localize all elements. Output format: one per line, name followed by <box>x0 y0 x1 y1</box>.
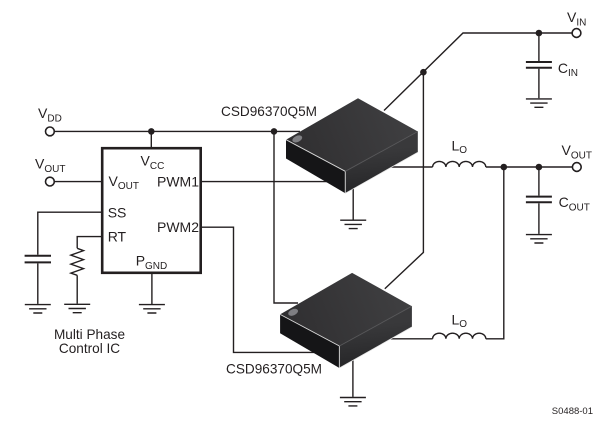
svg-text:CSD96370Q5M: CSD96370Q5M <box>221 104 317 119</box>
wire SS cap to ground <box>37 263 39 304</box>
wire chip2 switch node <box>388 338 433 340</box>
wire VOUT rail <box>486 166 573 168</box>
wire VDD drop to chip2 <box>274 131 298 303</box>
terminal VOUT left <box>46 177 55 186</box>
ground RT <box>64 304 90 312</box>
wire VDD rail <box>54 130 300 132</box>
wire chip2 ground stem <box>352 358 354 397</box>
power stage U1 CSD96370Q5M package <box>286 98 418 193</box>
wire COUT stem <box>538 167 540 196</box>
capacitor SS <box>25 256 51 263</box>
op controller box Multi Phase Control IC <box>102 148 201 273</box>
svg-text:VOUT: VOUT <box>562 142 592 161</box>
node junction VDD-VCC <box>148 128 155 135</box>
terminal VDD <box>46 127 55 136</box>
wire SS <box>38 212 102 255</box>
resistor RT <box>71 248 84 275</box>
inductor LO phase2 <box>433 333 486 339</box>
capacitor COUT <box>526 197 552 203</box>
wire PGND stem <box>151 274 153 304</box>
wire chip1 ground stem <box>352 186 354 220</box>
ground chip1 <box>340 220 366 228</box>
svg-text:LO: LO <box>452 138 468 157</box>
svg-text:S0488-01: S0488-01 <box>552 406 593 417</box>
ground SS <box>25 305 51 313</box>
svg-text:Multi Phase: Multi Phase <box>54 327 125 342</box>
node junction VIN-CIN <box>536 30 543 37</box>
power stage U2 CSD96370Q5M package <box>280 273 412 368</box>
ground chip2 <box>340 398 366 406</box>
terminal VIN <box>572 29 581 38</box>
svg-text:LO: LO <box>452 311 468 330</box>
svg-text:CSD96370Q5M: CSD96370Q5M <box>226 361 322 376</box>
svg-text:PWM1: PWM1 <box>157 173 199 189</box>
wire CIN stem <box>538 33 540 61</box>
svg-text:Control IC: Control IC <box>59 341 120 356</box>
svg-text:PWM2: PWM2 <box>157 219 199 235</box>
svg-text:VDD: VDD <box>38 105 62 124</box>
node junction VOUT-COUT <box>536 164 543 171</box>
capacitor CIN <box>526 62 552 68</box>
terminal VOUT right <box>572 163 581 172</box>
inductor LO phase1 <box>433 161 486 167</box>
wire chip1 switch node <box>388 166 433 168</box>
svg-text:VOUT: VOUT <box>35 155 65 174</box>
wire PWM1 <box>202 181 332 183</box>
node junction VOUT-phase2 <box>501 164 508 171</box>
ground CIN <box>526 99 552 107</box>
ground PGND <box>139 305 165 313</box>
svg-text:VIN: VIN <box>567 9 586 28</box>
wire VIN drop to chip2 <box>385 72 424 289</box>
wire VIN rail <box>384 33 572 111</box>
svg-text:SS: SS <box>108 204 127 220</box>
svg-text:COUT: COUT <box>559 194 590 213</box>
wire VOUT sense <box>54 181 102 183</box>
wire VCC stem <box>150 131 152 148</box>
wire CIN to ground <box>538 69 540 99</box>
wire PWM2 <box>202 227 315 352</box>
svg-text:RT: RT <box>108 229 127 245</box>
wire RT <box>77 237 102 249</box>
svg-text:CIN: CIN <box>558 60 578 79</box>
wire COUT to ground <box>538 203 540 234</box>
ground COUT <box>526 235 552 243</box>
node junction VDD-chip2 <box>271 128 278 135</box>
node junction VIN diagonal <box>420 69 427 76</box>
wire phase2 to output junction <box>486 167 504 339</box>
wire RT resistor to ground <box>76 275 78 303</box>
